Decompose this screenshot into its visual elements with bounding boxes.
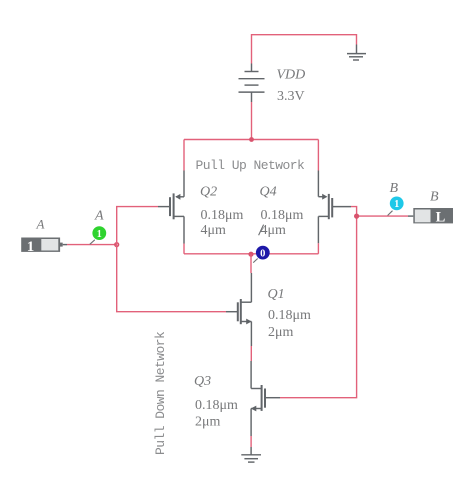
svg-text:1: 1 <box>394 199 399 210</box>
Q3 arrow <box>251 406 256 412</box>
svg-text:Q1: Q1 <box>268 287 285 302</box>
svg-text:4μm: 4μm <box>261 223 287 238</box>
svg-text:2μm: 2μm <box>268 325 294 340</box>
svg-text:VDD: VDD <box>277 68 306 83</box>
transistor Q1 (NMOS) <box>226 273 251 346</box>
svg-text:2μm: 2μm <box>195 414 221 429</box>
svg-text:3.3V: 3.3V <box>277 89 305 104</box>
wire box bottom edge (output net) <box>184 253 318 255</box>
ground bottom <box>241 447 261 462</box>
node 0 badge <box>253 225 269 263</box>
Q4 arrow <box>322 194 327 200</box>
Q1 arrow <box>246 319 251 325</box>
junction input A <box>115 243 119 247</box>
probe A <box>90 226 106 244</box>
svg-text:0.18μm: 0.18μm <box>268 308 311 323</box>
svg-text:0.18μm: 0.18μm <box>261 208 304 223</box>
wire B junction to switch B <box>357 215 408 217</box>
svg-text:Pull Up Network: Pull Up Network <box>196 158 306 173</box>
wire input A <box>67 244 117 246</box>
wire Q3 source to ground <box>250 436 252 447</box>
junction output node <box>248 252 253 257</box>
svg-text:0: 0 <box>260 248 265 259</box>
wire pull-up box top edge <box>184 139 318 141</box>
svg-text:B: B <box>430 189 439 204</box>
wire Q1 source to Q3 drain <box>250 346 252 361</box>
wire box right edge lower <box>317 243 319 254</box>
ground top right <box>347 45 366 61</box>
wire B junction down to Q3 gate <box>280 216 357 398</box>
wire VDD top loop <box>252 35 357 64</box>
wire A down to Q1 gate <box>117 245 226 312</box>
wire battery to pull-up box <box>251 102 253 140</box>
svg-text:Q4: Q4 <box>260 185 277 200</box>
svg-text:Pull Down Network: Pull Down Network <box>153 331 168 455</box>
wire A up to Q2 gate <box>117 207 158 245</box>
svg-text:1: 1 <box>27 239 35 255</box>
lead switch A <box>63 244 67 246</box>
Q2 arrow <box>175 194 180 200</box>
svg-text:0.18μm: 0.18μm <box>201 208 244 223</box>
transistor Q4 (PMOS mirrored) <box>318 171 351 244</box>
wire box right edge upper <box>317 140 319 171</box>
svg-text:Q2: Q2 <box>200 185 217 200</box>
probe B <box>388 197 404 216</box>
svg-text:B: B <box>390 181 399 196</box>
svg-text:1: 1 <box>97 229 102 240</box>
wire box left edge lower <box>183 244 185 254</box>
battery V1 <box>239 64 265 103</box>
switch B <box>413 208 453 225</box>
transistor Q2 (PMOS) <box>158 171 184 244</box>
svg-text:L: L <box>436 209 446 225</box>
svg-text:A: A <box>94 209 104 224</box>
wire Q4 gate to B junction <box>351 207 357 217</box>
transistor Q3 (NMOS mirrored) <box>251 361 280 436</box>
wire node to Q1 drain <box>250 254 252 273</box>
svg-text:Q3: Q3 <box>194 374 211 389</box>
svg-text:A: A <box>36 217 45 232</box>
lead switch B <box>408 215 413 217</box>
wire box left edge upper <box>183 140 185 171</box>
junction VDD node <box>249 137 254 142</box>
svg-text:0.18μm: 0.18μm <box>195 398 238 413</box>
switch A <box>21 238 63 255</box>
svg-text:4μm: 4μm <box>201 223 227 238</box>
junction B <box>354 214 359 219</box>
